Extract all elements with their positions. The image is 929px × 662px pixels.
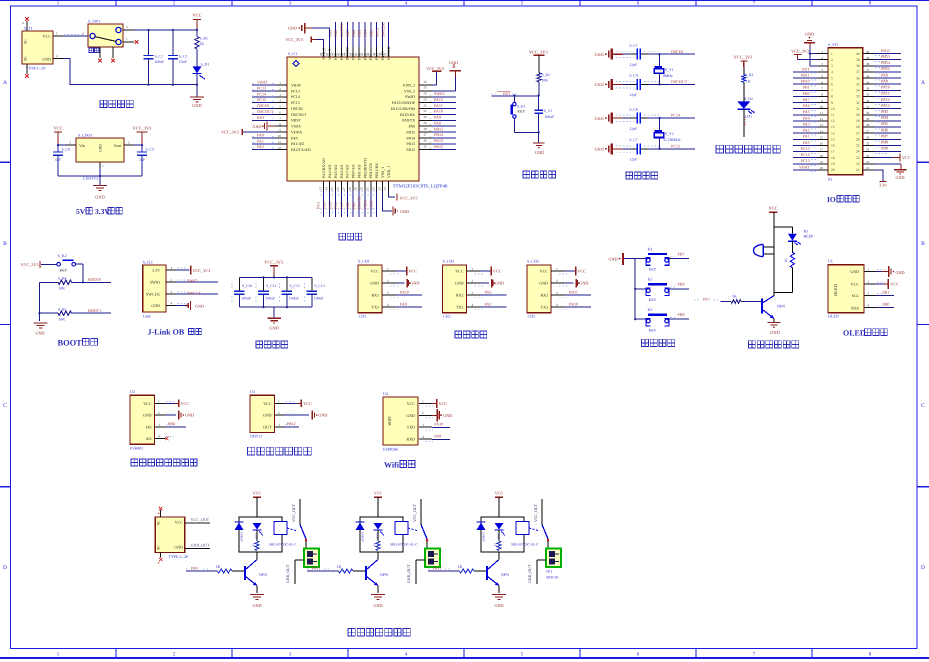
svg-text:100nF: 100nF <box>545 115 555 119</box>
svg-text:44: 44 <box>342 52 346 56</box>
svg-text:VCC: VCC <box>43 34 52 39</box>
svg-text:PB0: PB0 <box>345 202 350 209</box>
svg-text:VCC_3V3: VCC_3V3 <box>21 262 39 267</box>
svg-text:12pF: 12pF <box>629 93 637 97</box>
svg-text:46: 46 <box>331 52 335 56</box>
svg-text:1: 1 <box>102 164 104 168</box>
svg-text:SWCLK: SWCLK <box>380 23 385 37</box>
svg-text:PB1/AO: PB1/AO <box>357 164 361 178</box>
svg-text:D: D <box>3 565 7 571</box>
svg-text:13: 13 <box>831 125 835 129</box>
svg-text:12: 12 <box>820 117 824 121</box>
svg-text:PA2: PA2 <box>257 144 264 149</box>
svg-text:25: 25 <box>424 144 428 148</box>
svg-text:PA7: PA7 <box>803 97 810 102</box>
svg-text:30: 30 <box>424 115 428 119</box>
svg-text:14: 14 <box>324 187 328 191</box>
svg-text:2: 2 <box>82 32 84 36</box>
svg-text:BOOT0: BOOT0 <box>339 24 344 37</box>
svg-text:Wifi: Wifi <box>384 461 400 470</box>
svg-text:11: 11 <box>831 113 835 117</box>
svg-text:PA0: PA0 <box>803 140 810 145</box>
svg-text:PA3: PA3 <box>803 121 810 126</box>
svg-text:43: 43 <box>348 52 352 56</box>
svg-text:PA6: PA6 <box>803 103 810 108</box>
svg-text:GND: GND <box>805 31 814 36</box>
svg-text:GND: GND <box>42 56 51 61</box>
svg-text:PA11/USB/DM: PA11/USB/DM <box>391 107 416 111</box>
svg-text:PA7: PA7 <box>339 202 344 209</box>
svg-text:SWIO: SWIO <box>150 279 160 284</box>
svg-text:CH1: CH1 <box>359 314 367 319</box>
svg-text:FSR402: FSR402 <box>130 446 143 451</box>
svg-text:11: 11 <box>278 140 281 144</box>
svg-text:22: 22 <box>856 162 860 166</box>
svg-text:PB8: PB8 <box>333 30 338 37</box>
svg-text:SWCLK: SWCLK <box>187 291 201 296</box>
svg-text:S_C7: S_C7 <box>629 138 638 142</box>
svg-text:OSCOUT: OSCOUT <box>257 109 274 114</box>
svg-text:3: 3 <box>387 291 389 295</box>
svg-text:PC15: PC15 <box>801 146 810 151</box>
svg-text:32: 32 <box>856 101 860 105</box>
svg-text:GND: GND <box>151 303 160 308</box>
svg-text:18: 18 <box>348 187 352 191</box>
svg-text:VCC: VCC <box>439 401 448 406</box>
svg-text:PA7: PA7 <box>703 297 710 302</box>
svg-text:DO: DO <box>146 424 152 429</box>
svg-text:BOOT: BOOT <box>58 338 83 347</box>
svg-text:12pF: 12pF <box>629 158 637 162</box>
svg-text:SDA: SDA <box>851 305 859 310</box>
svg-text:3: 3 <box>126 25 128 29</box>
svg-text:3.3V: 3.3V <box>152 268 160 273</box>
svg-text:37: 37 <box>856 70 860 74</box>
svg-text:20: 20 <box>360 187 364 191</box>
svg-text:S_R1: S_R1 <box>200 37 209 41</box>
svg-text:PB12: PB12 <box>881 48 890 53</box>
svg-text:38: 38 <box>378 52 382 56</box>
svg-text:35: 35 <box>424 86 428 90</box>
svg-text:39: 39 <box>372 52 376 56</box>
svg-text:WIFI: WIFI <box>387 416 392 426</box>
svg-text:GND_OUT: GND_OUT <box>407 564 411 583</box>
svg-text:SWCLK: SWCLK <box>146 291 160 296</box>
svg-text:PB0: PB0 <box>803 91 810 96</box>
svg-text:S_K1: S_K1 <box>517 105 526 109</box>
svg-text:13: 13 <box>820 123 824 127</box>
svg-text:PA1: PA1 <box>257 138 264 143</box>
svg-text:PA10: PA10 <box>881 85 890 90</box>
svg-text:VBAT: VBAT <box>257 80 268 85</box>
svg-text:S_C9: S_C9 <box>146 148 155 152</box>
svg-text:PA8: PA8 <box>408 125 415 129</box>
svg-text:C: C <box>3 403 7 409</box>
svg-text:PB15: PB15 <box>406 130 415 134</box>
svg-text:29: 29 <box>866 117 870 121</box>
svg-text:VCC_3V3: VCC_3V3 <box>734 55 754 60</box>
svg-text:Link: Link <box>143 314 151 319</box>
svg-text:PA15: PA15 <box>881 103 890 108</box>
svg-text:35: 35 <box>856 82 860 86</box>
svg-text:40: 40 <box>866 50 870 54</box>
svg-text:GND: GND <box>269 326 279 331</box>
svg-text:KEY: KEY <box>649 268 657 272</box>
svg-text:VCC: VCC <box>455 269 464 274</box>
svg-text:14: 14 <box>820 129 824 133</box>
svg-text:GND_OUT: GND_OUT <box>286 564 290 583</box>
svg-text:1: 1 <box>868 268 870 272</box>
svg-text:NC: NC <box>156 520 160 525</box>
svg-text:36: 36 <box>856 76 860 80</box>
svg-text:41: 41 <box>360 52 364 56</box>
svg-text:1: 1 <box>472 267 474 271</box>
svg-text:100uF: 100uF <box>266 296 276 300</box>
svg-text:BEEP: BEEP <box>804 233 815 238</box>
svg-text:VBAT: VBAT <box>291 83 302 87</box>
svg-text:U4: U4 <box>383 391 388 396</box>
svg-text:OSCIN: OSCIN <box>671 49 683 54</box>
svg-text:PA5: PA5 <box>803 109 810 114</box>
svg-text:S_C1: S_C1 <box>629 44 638 48</box>
svg-text:1K: 1K <box>784 258 788 263</box>
svg-text:PC13: PC13 <box>742 117 747 126</box>
svg-text:10K: 10K <box>542 79 549 83</box>
svg-text:PB6: PB6 <box>881 127 888 132</box>
svg-text:D: D <box>921 565 925 571</box>
svg-text:KEY: KEY <box>649 328 657 332</box>
svg-text:32.768KHz: 32.768KHz <box>663 138 681 142</box>
svg-text:PA12: PA12 <box>434 97 443 102</box>
svg-text:GND: GND <box>174 545 183 550</box>
svg-text:VDD_1: VDD_1 <box>387 166 391 178</box>
svg-text:S_C6: S_C6 <box>629 107 638 111</box>
svg-text:18: 18 <box>820 154 824 158</box>
svg-text:1: 1 <box>158 399 160 403</box>
svg-text:38: 38 <box>866 62 870 66</box>
svg-text:26: 26 <box>866 135 870 139</box>
svg-text:PA6: PA6 <box>333 202 338 209</box>
svg-text:1: 1 <box>387 267 389 271</box>
svg-text:PA9: PA9 <box>881 78 888 83</box>
svg-text:PA10: PA10 <box>434 109 443 114</box>
svg-text:13: 13 <box>318 187 322 191</box>
svg-text:VCC: VCC <box>768 206 777 211</box>
svg-text:GND: GND <box>895 175 904 180</box>
svg-text:2: 2 <box>387 279 389 283</box>
svg-text:1uF: 1uF <box>55 158 61 162</box>
svg-text:27: 27 <box>866 129 870 133</box>
svg-text:36: 36 <box>424 80 428 84</box>
svg-text:15: 15 <box>820 135 824 139</box>
svg-text:NC: NC <box>24 56 28 61</box>
svg-text:3: 3 <box>422 423 424 427</box>
svg-text:1K: 1K <box>458 564 463 569</box>
svg-text:48: 48 <box>319 52 323 56</box>
svg-text:VDD_2: VDD_2 <box>403 83 415 87</box>
svg-text:40: 40 <box>856 52 860 56</box>
svg-text:PB5: PB5 <box>881 121 888 126</box>
svg-text:15: 15 <box>831 137 835 141</box>
svg-text:20: 20 <box>820 166 824 170</box>
svg-text:100uF: 100uF <box>241 296 251 300</box>
svg-text:S_C4: S_C4 <box>629 74 638 78</box>
svg-text:PA9: PA9 <box>434 115 441 120</box>
svg-text:PB6: PB6 <box>168 421 175 426</box>
svg-text:40: 40 <box>366 52 370 56</box>
svg-text:S_C11: S_C11 <box>266 284 276 288</box>
svg-text:PC15: PC15 <box>291 101 300 105</box>
svg-text:1N4007: 1N4007 <box>482 532 486 542</box>
svg-text:PC13: PC13 <box>257 85 266 90</box>
svg-text:PB1: PB1 <box>803 85 810 90</box>
svg-text:PB1: PB1 <box>882 289 889 294</box>
svg-text:S_C8: S_C8 <box>62 148 71 152</box>
svg-text:VCC: VCC <box>577 269 586 274</box>
svg-text:PA7/AO: PA7/AO <box>346 165 350 178</box>
svg-text:3: 3 <box>278 423 280 427</box>
svg-text:U1: U1 <box>828 259 833 264</box>
svg-text:GND_OUT: GND_OUT <box>191 542 210 547</box>
svg-text:VCC: VCC <box>253 491 262 496</box>
svg-text:2: 2 <box>556 279 558 283</box>
svg-text:PB14: PB14 <box>881 60 890 65</box>
svg-text:47: 47 <box>325 52 329 56</box>
svg-text:PB13: PB13 <box>881 54 890 59</box>
svg-text:S_R2: S_R2 <box>542 73 551 77</box>
svg-text:S_D2: S_D2 <box>744 97 753 101</box>
svg-text:2: 2 <box>128 141 130 145</box>
svg-text:GND: GND <box>494 603 503 608</box>
svg-text:39: 39 <box>866 56 870 60</box>
svg-text:PA12: PA12 <box>881 97 890 102</box>
svg-text:GND: GND <box>400 209 409 214</box>
svg-text:2: 2 <box>472 279 474 283</box>
svg-text:PB7: PB7 <box>678 251 685 256</box>
svg-text:TXD: TXD <box>407 425 415 430</box>
svg-text:37: 37 <box>866 68 870 72</box>
svg-text:4: 4 <box>171 302 173 306</box>
svg-text:VCC: VCC <box>851 282 860 287</box>
svg-text:PA2/TX/AO: PA2/TX/AO <box>291 148 311 152</box>
svg-text:VCC: VCC <box>181 401 190 406</box>
svg-text:23: 23 <box>866 154 870 158</box>
svg-text:12pF: 12pF <box>629 63 637 67</box>
svg-text:24: 24 <box>383 187 387 191</box>
svg-text:PA3: PA3 <box>485 290 492 295</box>
svg-text:RX3: RX3 <box>540 293 548 298</box>
svg-text:IO: IO <box>828 177 832 182</box>
svg-text:1K: 1K <box>746 79 751 83</box>
svg-text:PA8: PA8 <box>434 120 441 125</box>
svg-text:GND: GND <box>579 281 588 286</box>
svg-text:GND: GND <box>143 413 152 418</box>
svg-text:25: 25 <box>856 144 860 148</box>
svg-text:31: 31 <box>866 105 870 109</box>
svg-text:PB7: PB7 <box>345 30 350 37</box>
svg-text:30: 30 <box>866 111 870 115</box>
svg-text:S_SW1: S_SW1 <box>88 19 100 24</box>
svg-text:1: 1 <box>171 266 173 270</box>
svg-text:S_C12: S_C12 <box>290 284 300 288</box>
svg-text:34: 34 <box>424 92 428 96</box>
svg-text:GND: GND <box>609 257 618 262</box>
svg-text:PA0: PA0 <box>257 132 264 137</box>
svg-text:S_CH1: S_CH1 <box>358 259 370 264</box>
svg-text:VDDA: VDDA <box>291 130 302 134</box>
svg-text:16: 16 <box>820 142 824 146</box>
svg-text:12: 12 <box>278 146 282 150</box>
svg-text:GND: GND <box>318 412 327 417</box>
svg-text:SRD-05VDC-SL-C: SRD-05VDC-SL-C <box>511 542 539 546</box>
svg-text:VCC_OUT: VCC_OUT <box>413 503 417 522</box>
svg-text:20: 20 <box>831 168 835 172</box>
svg-text:37: 37 <box>384 52 388 56</box>
svg-text:B: B <box>3 241 7 247</box>
svg-text:PC13: PC13 <box>291 89 300 93</box>
svg-text:GND_OUT: GND_OUT <box>528 564 532 583</box>
svg-text:S_R3: S_R3 <box>745 73 754 77</box>
svg-text:PB8: PB8 <box>881 140 888 145</box>
svg-text:PB15: PB15 <box>881 66 890 71</box>
svg-text:TX1: TX1 <box>372 305 379 310</box>
svg-text:1K: 1K <box>337 564 342 569</box>
svg-text:42: 42 <box>354 52 358 56</box>
svg-text:PA1/AO: PA1/AO <box>291 142 304 146</box>
svg-text:PC14: PC14 <box>257 91 266 96</box>
svg-text:16: 16 <box>336 187 340 191</box>
svg-text:27: 27 <box>424 133 428 137</box>
svg-text:10K: 10K <box>59 318 66 322</box>
svg-text:VCC: VCC <box>407 401 416 406</box>
svg-text:4: 4 <box>831 70 833 74</box>
svg-text:33: 33 <box>424 97 428 101</box>
svg-text:PB10: PB10 <box>569 302 578 307</box>
svg-text:J-Link OB: J-Link OB <box>148 328 185 337</box>
svg-text:OSCIN: OSCIN <box>291 107 303 111</box>
svg-text:PB4: PB4 <box>881 115 888 120</box>
svg-text:PA9/TX: PA9/TX <box>402 119 415 123</box>
svg-text:GND: GND <box>896 270 905 275</box>
svg-text:S_C10: S_C10 <box>242 284 252 288</box>
svg-text:S_C5: S_C5 <box>544 109 553 113</box>
svg-text:CH2: CH2 <box>443 314 451 319</box>
svg-text:K1: K1 <box>648 246 653 251</box>
svg-text:34: 34 <box>866 87 870 91</box>
svg-text:GND: GND <box>263 413 272 418</box>
svg-text:30: 30 <box>856 113 860 117</box>
svg-text:2: 2 <box>278 411 280 415</box>
svg-text:GND: GND <box>35 331 44 336</box>
svg-text:VCC: VCC <box>408 269 417 274</box>
svg-text:10: 10 <box>831 107 835 111</box>
svg-text:2: 2 <box>831 58 833 62</box>
svg-text:1: 1 <box>56 32 58 36</box>
svg-text:KEY: KEY <box>517 110 525 114</box>
svg-text:1K: 1K <box>216 564 221 569</box>
svg-text:SWIO: SWIO <box>187 278 198 283</box>
svg-text:PC15: PC15 <box>257 97 266 102</box>
svg-text:PB14: PB14 <box>406 136 415 140</box>
svg-text:S_CH3: S_CH3 <box>527 259 539 264</box>
svg-text:PA10: PA10 <box>400 290 409 295</box>
svg-text:2: 2 <box>422 411 424 415</box>
svg-text:S_CH2: S_CH2 <box>443 259 455 264</box>
svg-text:U2: U2 <box>130 389 135 394</box>
svg-text:15: 15 <box>330 187 334 191</box>
svg-text:22: 22 <box>371 187 375 191</box>
svg-text:GND: GND <box>443 413 452 418</box>
svg-text:BOOT1: BOOT1 <box>357 196 362 209</box>
svg-text:PB8: PB8 <box>678 282 685 287</box>
svg-text:12pF: 12pF <box>629 127 637 131</box>
svg-text:21: 21 <box>856 168 860 172</box>
svg-text:10K: 10K <box>59 287 66 291</box>
svg-text:2: 2 <box>171 278 173 282</box>
svg-text:PB9: PB9 <box>678 312 685 317</box>
svg-text:GND: GND <box>99 144 103 152</box>
svg-text:VSSA: VSSA <box>291 125 301 129</box>
svg-text:PA6/AO: PA6/AO <box>340 165 344 178</box>
svg-text:VCC_3V3: VCC_3V3 <box>193 268 211 273</box>
svg-text:VCC_3V3: VCC_3V3 <box>221 129 239 134</box>
svg-text:U3: U3 <box>250 389 255 394</box>
svg-text:36: 36 <box>866 74 870 78</box>
svg-text:11: 11 <box>820 111 823 115</box>
svg-text:PB12: PB12 <box>287 421 296 426</box>
svg-text:PA10/RX: PA10/RX <box>400 113 415 117</box>
svg-text:16: 16 <box>831 144 835 148</box>
svg-text:PA3/RX/AO: PA3/RX/AO <box>322 158 326 178</box>
svg-text:S_LDO1: S_LDO1 <box>78 133 92 138</box>
svg-text:PB3: PB3 <box>881 109 888 114</box>
svg-text:BOOT0: BOOT0 <box>88 277 101 282</box>
svg-text:4: 4 <box>422 435 424 439</box>
svg-text:RST: RST <box>257 115 265 120</box>
svg-text:31: 31 <box>856 107 860 111</box>
svg-text:GND: GND <box>195 303 204 308</box>
svg-text:24: 24 <box>856 150 860 154</box>
svg-text:S_C3: S_C3 <box>179 54 188 58</box>
svg-text:PC13: PC13 <box>801 158 810 163</box>
svg-text:2: 2 <box>868 280 870 284</box>
svg-text:JK1: JK1 <box>546 570 552 574</box>
svg-text:OSCIN: OSCIN <box>257 103 269 108</box>
svg-text:OLED: OLED <box>843 329 866 338</box>
svg-text:9: 9 <box>831 101 833 105</box>
svg-text:100uF: 100uF <box>314 296 324 300</box>
svg-text:S_U1: S_U1 <box>288 51 297 56</box>
svg-text:GND: GND <box>595 147 604 152</box>
svg-text:34: 34 <box>856 89 860 93</box>
svg-text:100uF: 100uF <box>155 60 165 64</box>
svg-text:3.3V: 3.3V <box>879 182 887 187</box>
svg-text:1N4007: 1N4007 <box>240 532 244 542</box>
svg-text:GND: GND <box>252 603 261 608</box>
svg-text:PB14: PB14 <box>434 132 443 137</box>
svg-text:17: 17 <box>831 150 835 154</box>
svg-text:PB12: PB12 <box>406 148 415 152</box>
svg-text:VCC: VCC <box>53 126 62 131</box>
svg-text:RST: RST <box>802 66 810 71</box>
svg-text:PB2/BOOT1: PB2/BOOT1 <box>363 158 367 178</box>
svg-text:S_C2: S_C2 <box>155 54 164 58</box>
svg-text:PC14: PC14 <box>671 113 680 118</box>
svg-text:S_JL1: S_JL1 <box>143 260 153 265</box>
svg-text:1: 1 <box>831 52 833 56</box>
svg-text:10: 10 <box>820 105 824 109</box>
svg-text:NPN: NPN <box>259 572 267 577</box>
